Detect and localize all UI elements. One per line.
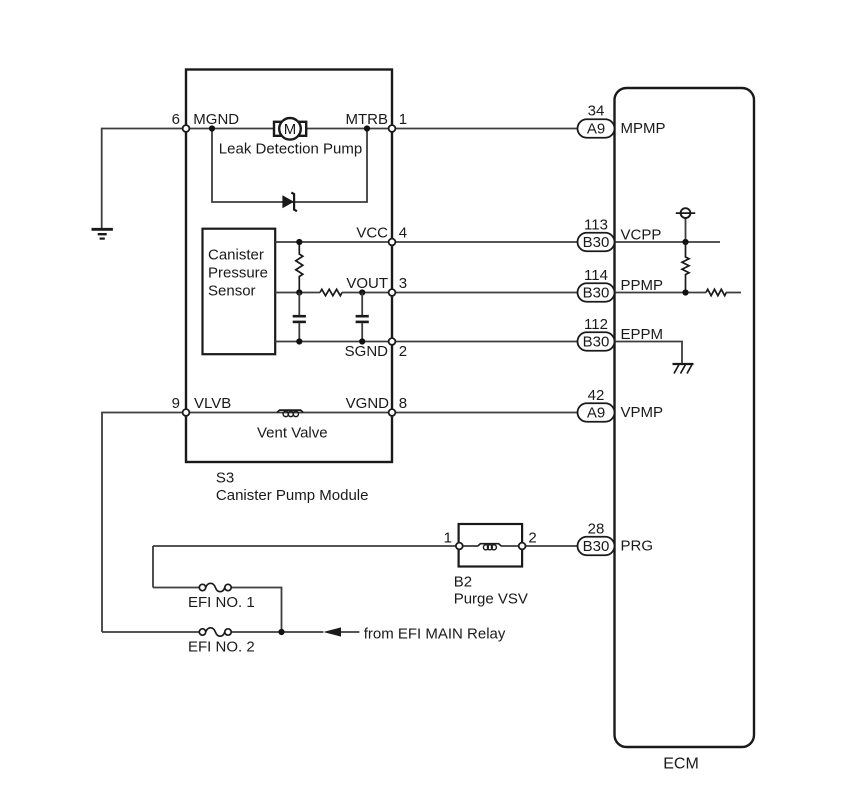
svg-text:6: 6	[172, 111, 180, 128]
label B2	[454, 574, 472, 591]
pin number 42	[588, 387, 605, 404]
wire diode loop	[212, 129, 367, 203]
pin number 114	[584, 267, 608, 284]
junction VOUT node right	[359, 289, 365, 295]
pin 2 of B2	[519, 543, 526, 550]
capacitor C1	[293, 293, 306, 342]
svg-text:Leak Detection Pump: Leak Detection Pump	[219, 141, 362, 158]
svg-text:B2: B2	[454, 574, 472, 591]
wire PRG row left	[153, 545, 459, 547]
label from EFI MAIN Relay	[364, 626, 506, 643]
svg-text:VOUT: VOUT	[346, 275, 388, 292]
svg-text:114: 114	[584, 267, 608, 284]
pin 1 of B2	[456, 543, 463, 550]
pin 9 circle	[183, 409, 190, 416]
pin label VLVB	[194, 395, 231, 412]
connector oval A9 pin 34	[578, 119, 615, 138]
svg-text:28: 28	[588, 521, 605, 538]
sensor box Canister Pressure Sensor	[203, 229, 276, 355]
wire MGND left to ground	[102, 129, 186, 230]
pin label VCC	[356, 225, 388, 242]
junction VCC node	[296, 239, 302, 245]
pin 8 circle	[389, 409, 396, 416]
wire VOUT to ECM (PPMP)	[392, 292, 578, 294]
svg-text:VCC: VCC	[356, 225, 388, 242]
connector oval B30 pin 112	[578, 332, 615, 351]
net label EPPM	[621, 326, 664, 343]
svg-text:113: 113	[584, 217, 608, 234]
label S3	[216, 470, 234, 487]
svg-text:SGND: SGND	[345, 343, 389, 360]
svg-text:M: M	[284, 121, 297, 138]
connector oval B30 pin 28	[578, 537, 615, 556]
junction EFI relay node	[278, 629, 284, 635]
svg-text:1: 1	[399, 111, 407, 128]
svg-text:MPMP: MPMP	[621, 120, 666, 137]
wire PRG to ECM	[522, 545, 578, 547]
junction SGND node right	[359, 338, 365, 344]
svg-text:A9: A9	[587, 405, 605, 422]
junction VOUT node left	[296, 289, 302, 295]
capacitor C2	[356, 293, 369, 342]
pin label 3	[399, 275, 407, 292]
svg-text:42: 42	[588, 387, 605, 404]
wire EFI NO.1 row	[153, 588, 282, 633]
svg-text:B30: B30	[583, 334, 610, 351]
junction MTRB node	[364, 125, 370, 131]
wire VOUT row	[275, 292, 320, 294]
svg-text:112: 112	[584, 316, 608, 333]
pin number 112	[584, 316, 608, 333]
pin number 28	[588, 521, 605, 538]
label ECM	[663, 756, 699, 773]
fuse F1 EFI NO.1	[199, 583, 231, 591]
wire VOUT to pin 3	[342, 292, 392, 294]
wire VCC row	[275, 241, 392, 243]
ECM internal PPMP wire	[615, 292, 706, 294]
label Canister Pump Module	[216, 487, 369, 504]
motor M1 leak detection pump	[274, 118, 306, 140]
svg-text:MTRB: MTRB	[346, 111, 389, 128]
svg-text:S3: S3	[216, 470, 234, 487]
pin 4 circle	[389, 239, 396, 246]
svg-text:PRG: PRG	[621, 538, 654, 555]
svg-text:from EFI MAIN Relay: from EFI MAIN Relay	[364, 626, 506, 643]
solenoid B2 purge VSV box	[459, 524, 522, 567]
inductor L1 vent valve coil	[277, 410, 303, 416]
junction PPMP node	[682, 289, 688, 295]
net label PPMP	[621, 277, 664, 294]
pin label VOUT	[346, 275, 388, 292]
svg-text:VGND: VGND	[346, 395, 390, 412]
wire VGND to ECM (VPMP)	[392, 412, 578, 414]
svg-text:B30: B30	[583, 538, 610, 555]
svg-text:B30: B30	[583, 234, 610, 251]
ground G1 earth symbol	[92, 229, 113, 238]
svg-text:4: 4	[399, 225, 407, 242]
pin label 1	[399, 111, 407, 128]
pin label 9	[172, 395, 180, 412]
connector oval B30 pin 113	[578, 233, 615, 252]
svg-text:8: 8	[399, 395, 407, 412]
ECM internal VCPP wire	[615, 241, 720, 243]
pin number 113	[584, 217, 608, 234]
ECM internal EPPM wire	[615, 342, 682, 365]
pin 6 circle	[183, 125, 190, 132]
svg-text:1: 1	[444, 530, 452, 547]
pin 2 circle	[389, 338, 396, 345]
wire PPMP tail	[726, 292, 741, 294]
pin label SGND	[345, 343, 389, 360]
resistor R2 output series	[320, 289, 342, 295]
ground G2 chassis	[673, 364, 694, 374]
connector oval B30 pin 114	[578, 283, 615, 302]
diode D1 (zener)	[282, 193, 297, 212]
fuse F2 EFI NO.2	[199, 628, 231, 636]
junction SGND node left	[296, 338, 302, 344]
module box S3 Canister Pump Module	[186, 70, 392, 463]
wire SGND to ECM (EPPM)	[392, 341, 578, 343]
label Purge VSV	[454, 591, 528, 608]
pin 1 circle	[389, 125, 396, 132]
pin number 34	[588, 103, 605, 120]
svg-text:34: 34	[588, 103, 605, 120]
wire MGND-MTRB row inside module	[186, 128, 392, 130]
label Vent Valve	[257, 425, 328, 442]
svg-text:Canister Pump Module: Canister Pump Module	[216, 487, 369, 504]
resistor R4 ECM series	[706, 289, 726, 295]
label Leak Detection Pump	[219, 141, 362, 158]
pin label 4	[399, 225, 407, 242]
svg-text:EPPM: EPPM	[621, 326, 664, 343]
svg-text:Vent Valve: Vent Valve	[257, 425, 328, 442]
wire SGND row	[275, 341, 392, 343]
ECM box	[615, 88, 755, 747]
svg-text:EFI NO. 1: EFI NO. 1	[188, 594, 255, 611]
connector oval A9 pin 42	[578, 403, 615, 422]
svg-text:B30: B30	[583, 285, 610, 302]
junction VCPP node	[682, 239, 688, 245]
wire EFI NO.2 row	[102, 631, 323, 633]
wire VLVB-VGND row	[186, 412, 392, 414]
wire PRG vertical to EFI NO.1	[152, 546, 154, 588]
wire VCC to ECM (VCPP)	[392, 241, 578, 243]
arrow from EFI MAIN relay	[323, 627, 359, 636]
label 2 of B2	[528, 530, 536, 547]
pin label 2	[399, 343, 407, 360]
resistor R3 ECM pull-up	[682, 242, 689, 293]
svg-text:VPMP: VPMP	[621, 404, 664, 421]
pin label MTRB	[346, 111, 389, 128]
svg-text:ECM: ECM	[663, 756, 699, 773]
svg-text:9: 9	[172, 395, 180, 412]
pin label MGND	[193, 111, 239, 128]
svg-text:Purge VSV: Purge VSV	[454, 591, 528, 608]
power symbol B+	[676, 208, 695, 242]
svg-text:EFI NO. 2: EFI NO. 2	[188, 639, 255, 656]
svg-text:Pressure: Pressure	[208, 265, 268, 282]
wire MTRB to ECM (MPMP)	[392, 128, 578, 130]
svg-text:PPMP: PPMP	[621, 277, 664, 294]
svg-text:MGND: MGND	[193, 111, 239, 128]
net label VCPP	[621, 227, 662, 244]
net label VPMP	[621, 404, 664, 421]
svg-text:3: 3	[399, 275, 407, 292]
pin 3 circle	[389, 289, 396, 296]
pin label 6	[172, 111, 180, 128]
wire VLVB left rail	[102, 413, 186, 633]
junction MGND node	[209, 125, 215, 131]
inductor L2 purge VSV coil	[462, 544, 519, 550]
svg-text:Sensor: Sensor	[208, 283, 256, 300]
pin label VGND	[346, 395, 390, 412]
svg-text:Canister: Canister	[208, 246, 264, 263]
label Canister Pressure Sensor	[208, 246, 268, 299]
net label PRG	[621, 538, 654, 555]
svg-text:2: 2	[528, 530, 536, 547]
svg-text:2: 2	[399, 343, 407, 360]
pin label 8	[399, 395, 407, 412]
resistor R1 sensor pull-up	[296, 242, 303, 293]
net label MPMP	[621, 120, 666, 137]
label EFI NO. 1	[188, 594, 255, 611]
label EFI NO. 2	[188, 639, 255, 656]
svg-text:VCPP: VCPP	[621, 227, 662, 244]
label 1 of B2	[444, 530, 452, 547]
svg-text:VLVB: VLVB	[194, 395, 231, 412]
svg-text:A9: A9	[587, 121, 605, 138]
